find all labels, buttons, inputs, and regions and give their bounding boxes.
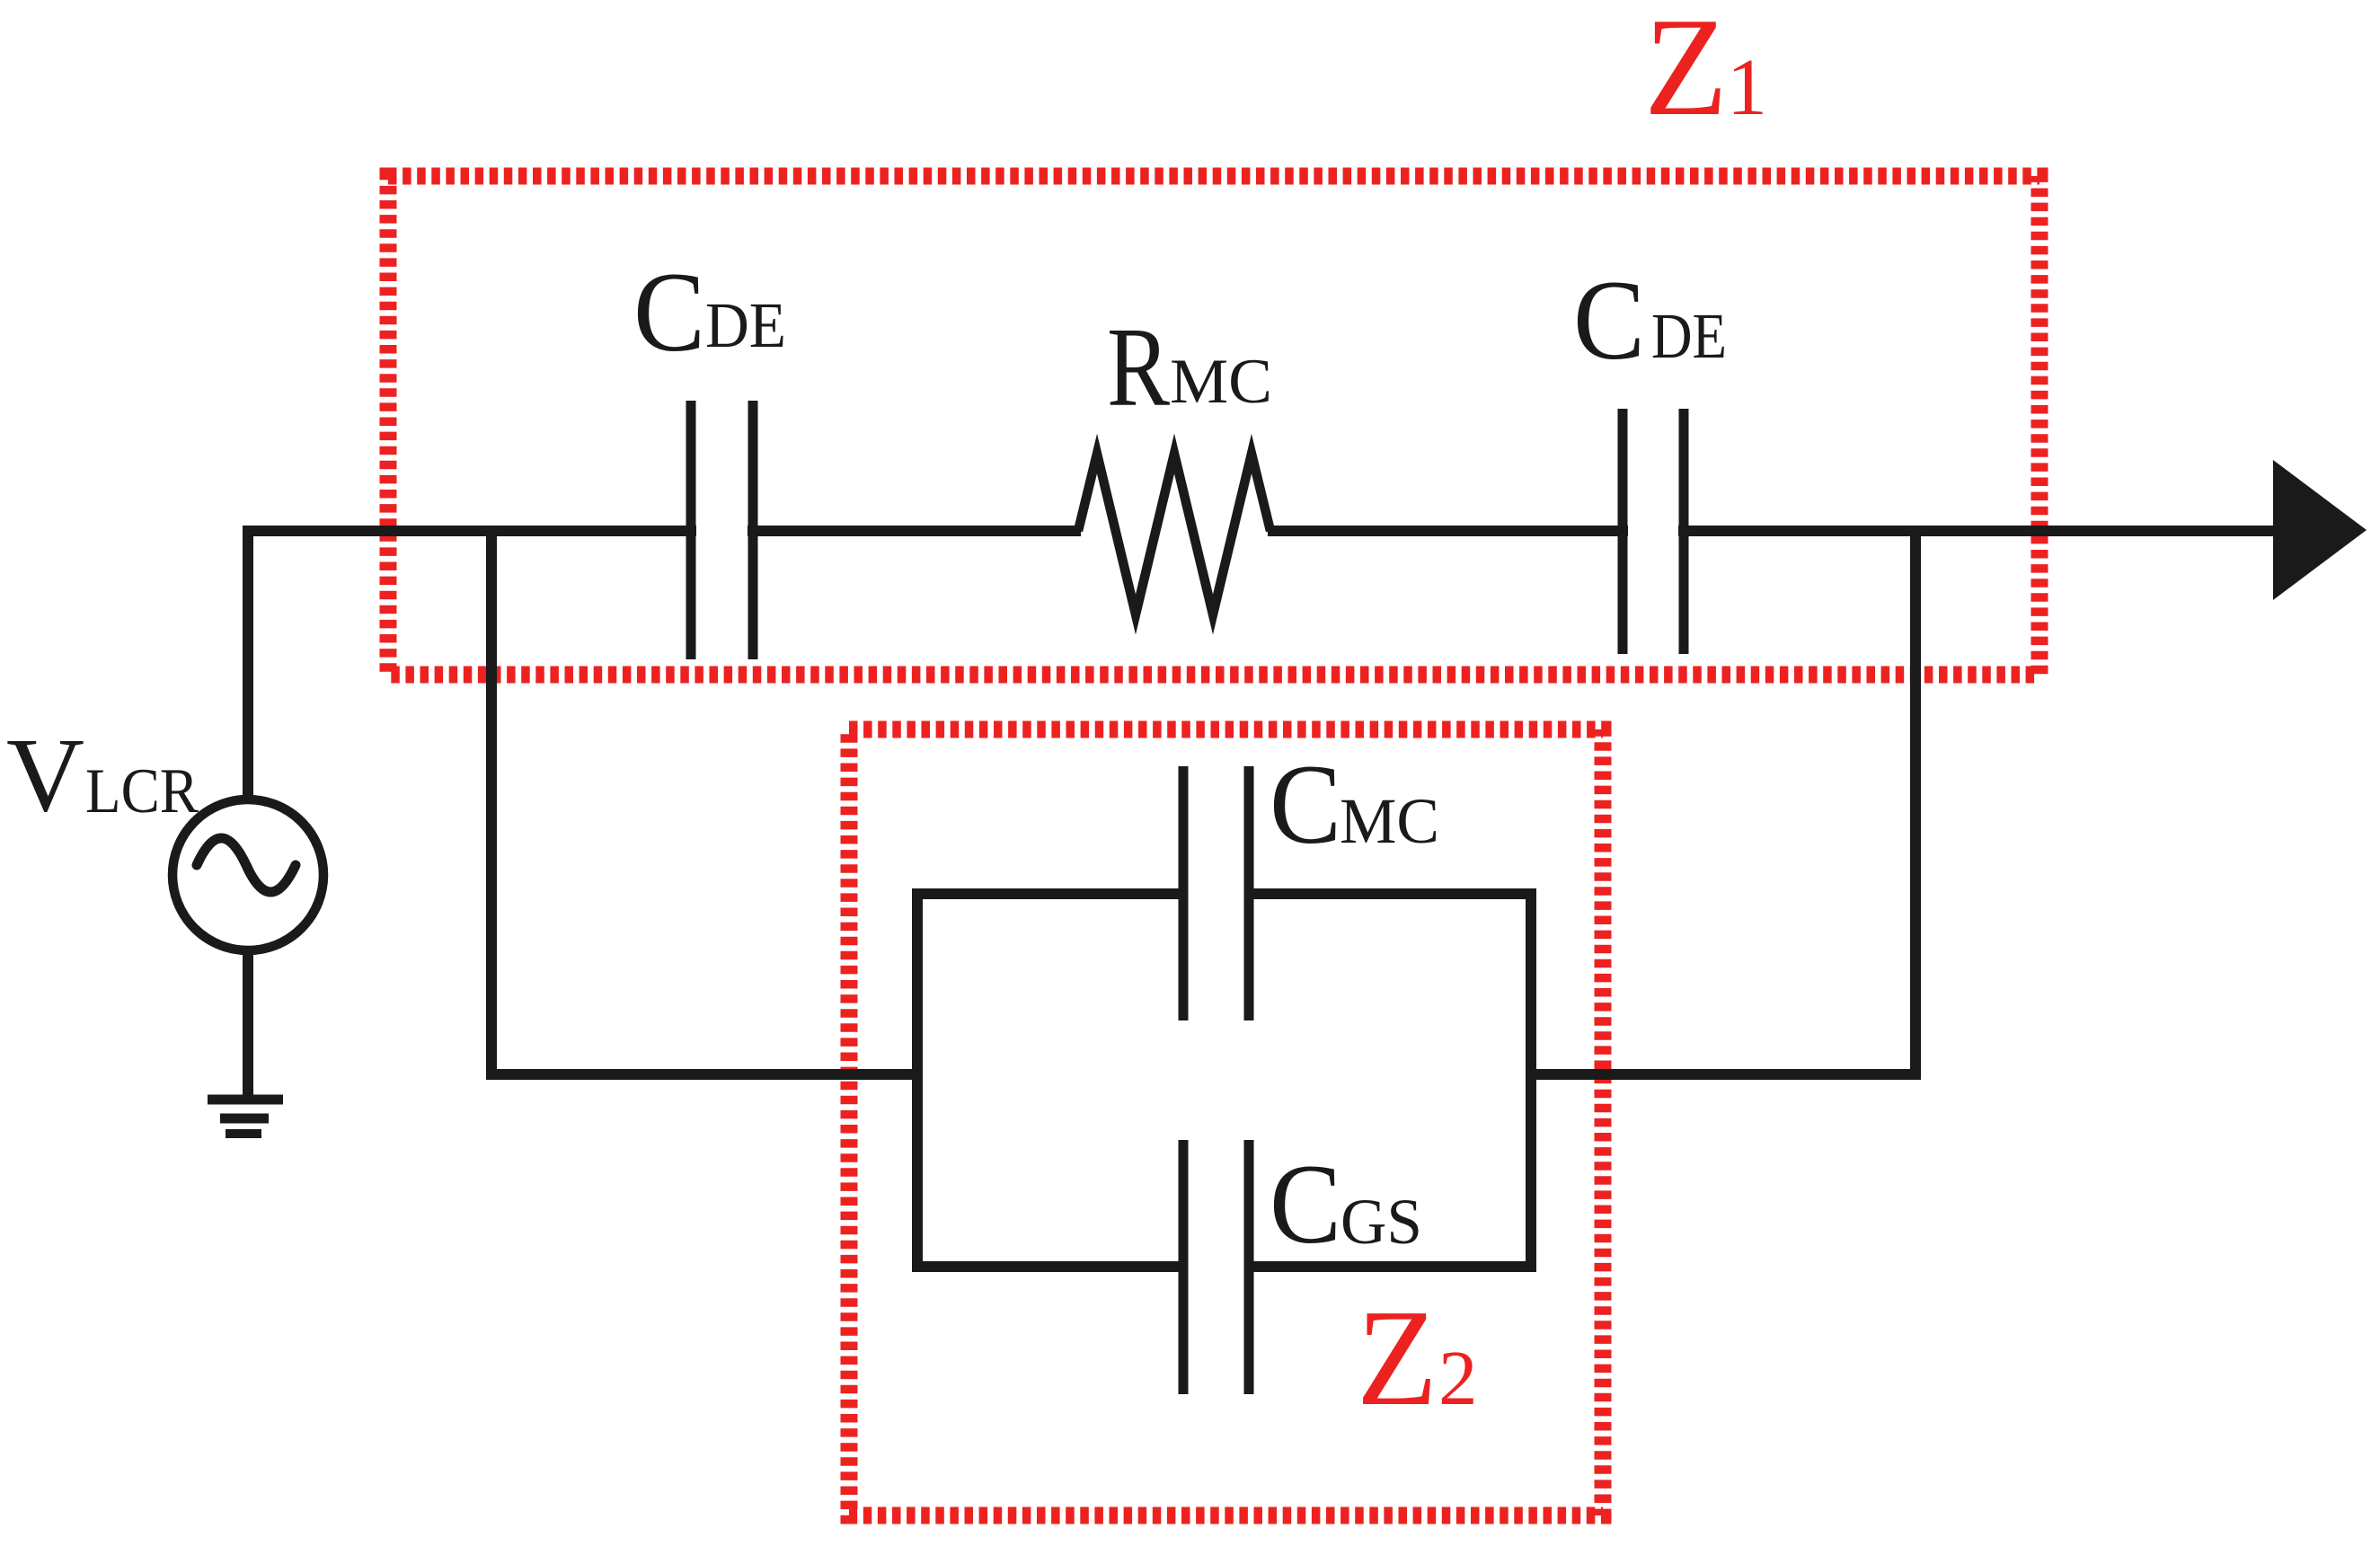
- label Z2: [1357, 1282, 1478, 1435]
- label C_GS: [1270, 1142, 1422, 1268]
- capacitor C_DE (right), plates: [1623, 409, 1684, 654]
- svg-text:C: C: [1270, 1142, 1341, 1268]
- svg-text:Z: Z: [1357, 1282, 1438, 1435]
- wire: right vertical from main wire down to bottom branch: [1910, 526, 1921, 1074]
- svg-text:MC: MC: [1340, 785, 1439, 857]
- label R_MC: [1107, 305, 1272, 430]
- wire: from source circle bottom down to ground: [243, 950, 253, 1097]
- label V_LCR: [6, 716, 199, 834]
- Z2 dotted box: [849, 729, 1603, 1515]
- wire: bottom branch right horizontal from parallel block to right vertical: [1531, 1069, 1921, 1080]
- wire: parallel block top horizontal: [912, 888, 1536, 899]
- svg-text:C: C: [633, 250, 705, 375]
- wire: parallel block rectangle (left vertical): [912, 894, 923, 1267]
- wire: branch vertical at first junction down to bottom branch: [486, 526, 497, 1074]
- capacitor C_GS plates: [1183, 1140, 1249, 1394]
- svg-text:DE: DE: [705, 289, 786, 361]
- svg-text:R: R: [1107, 305, 1170, 430]
- ground: [208, 1100, 283, 1134]
- wire: bottom branch horizontal from junction to parallel block: [486, 1069, 917, 1080]
- wire: left vertical from main wire down to source circle: [243, 526, 253, 800]
- svg-text:C: C: [1573, 258, 1645, 384]
- Z1 dotted box: [388, 176, 2039, 675]
- label Z1: [1644, 0, 1767, 145]
- resistor R_MC zigzag: [1078, 454, 1270, 614]
- svg-text:C: C: [1270, 742, 1341, 868]
- label C_MC: [1270, 742, 1439, 868]
- svg-text:Z: Z: [1644, 0, 1728, 145]
- output arrow: [2273, 460, 2367, 600]
- svg-text:LCR: LCR: [85, 756, 199, 826]
- wire: parallel block bottom horizontal: [912, 1261, 1536, 1272]
- capacitor C_DE (left), plates: [691, 401, 753, 659]
- svg-text:1: 1: [1727, 43, 1767, 132]
- label C_DE (right): [1573, 258, 1727, 384]
- svg-text:GS: GS: [1340, 1186, 1422, 1258]
- svg-text:DE: DE: [1651, 300, 1727, 372]
- wire: main top horizontal from source to arrow: [243, 526, 2278, 536]
- wire: parallel block right vertical: [1526, 894, 1536, 1267]
- voltage source V_LCR (AC source circle with sine): [173, 800, 323, 950]
- svg-text:MC: MC: [1170, 347, 1272, 417]
- svg-text:V: V: [6, 716, 84, 834]
- svg-text:2: 2: [1438, 1334, 1478, 1421]
- capacitor C_MC plates: [1183, 766, 1249, 1020]
- label C_DE (left): [633, 250, 786, 375]
